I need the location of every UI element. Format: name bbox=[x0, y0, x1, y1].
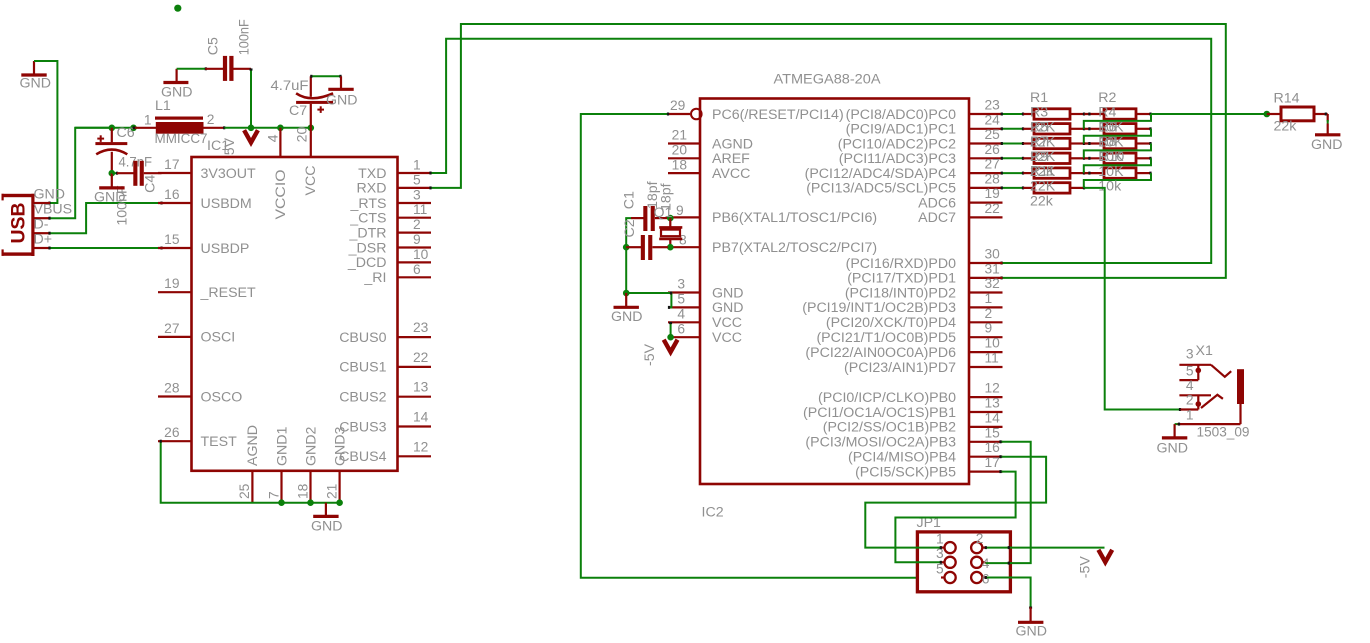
svg-text:GND2: GND2 bbox=[303, 426, 319, 466]
pin IC2-29 PC6 (inverted) bbox=[668, 98, 844, 123]
svg-text:13: 13 bbox=[413, 380, 429, 395]
svg-text:17: 17 bbox=[985, 455, 1000, 470]
svg-text:(PCI16/RXD)PD0: (PCI16/RXD)PD0 bbox=[846, 256, 956, 272]
svg-text:12: 12 bbox=[413, 439, 428, 454]
svg-text:9: 9 bbox=[676, 203, 684, 218]
resistor R3 22k bbox=[1023, 124, 1084, 134]
svg-text:14: 14 bbox=[985, 410, 1001, 425]
svg-text:PB7(XTAL2/TOSC2/PCI7): PB7(XTAL2/TOSC2/PCI7) bbox=[712, 240, 877, 256]
pin USB GND bbox=[34, 187, 66, 204]
pin IC2-27 (PCI12/ADC4/SDA)PC4 bbox=[805, 157, 1003, 182]
svg-text:24: 24 bbox=[985, 112, 1001, 127]
pin IC2-13 (PCI1/OC1A/OC1S)PB1 bbox=[803, 396, 1002, 421]
svg-text:31: 31 bbox=[985, 261, 1000, 276]
pin IC2-12 (PCI0/ICP/CLKO)PB0 bbox=[818, 381, 1002, 406]
svg-text:GND1: GND1 bbox=[274, 426, 290, 466]
svg-text:1: 1 bbox=[936, 531, 944, 546]
wire IC2 pin to R ladder row3 bbox=[1001, 142, 1023, 145]
svg-text:(PCI21/T1/OC0B)PD5: (PCI21/T1/OC0B)PD5 bbox=[816, 330, 956, 346]
svg-text:C7: C7 bbox=[289, 103, 307, 119]
pin IC1-21 GND3 bbox=[324, 426, 348, 502]
svg-text:PC6(/RESET/PCI14): PC6(/RESET/PCI14) bbox=[712, 107, 844, 123]
junction dot C6/C4/GND bbox=[109, 170, 116, 177]
label R11 value 22k bbox=[1030, 194, 1054, 210]
svg-text:D-: D- bbox=[34, 217, 49, 233]
svg-text:5: 5 bbox=[677, 292, 685, 307]
wire IC2 pin to R ladder row6 bbox=[1001, 186, 1023, 189]
pin IC1-9 _DSR bbox=[348, 232, 431, 256]
ground GND (crystal) bbox=[611, 293, 643, 325]
pin IC1-14 CBUS3 bbox=[339, 410, 431, 436]
pin USB D- bbox=[34, 217, 51, 234]
svg-text:CBUS1: CBUS1 bbox=[339, 360, 386, 376]
pin IC1-25 AGND bbox=[237, 425, 261, 503]
wire ladder output (row6 to X1) bbox=[1084, 188, 1180, 411]
svg-text:32: 32 bbox=[985, 276, 1000, 291]
svg-text:22K: 22K bbox=[1030, 179, 1056, 195]
svg-text:L1: L1 bbox=[155, 98, 171, 114]
svg-text:(PCI3/MOSI/OC2A)PB3: (PCI3/MOSI/OC2A)PB3 bbox=[805, 435, 956, 451]
pin IC1-20 VCC bbox=[295, 127, 311, 157]
wire IC2 pin to R ladder row5 bbox=[1001, 172, 1023, 175]
wire crystal GND to pins 3/5 bbox=[626, 292, 671, 309]
svg-text:10K: 10K bbox=[1098, 164, 1124, 180]
svg-text:(PCI12/ADC4/SDA)PC4: (PCI12/ADC4/SDA)PC4 bbox=[805, 166, 956, 182]
pin IC1-22 CBUS1 bbox=[339, 350, 431, 376]
wire C7 to GND bbox=[311, 75, 341, 78]
svg-text:26: 26 bbox=[164, 425, 180, 440]
svg-text:(PCI17/TXD)PD1: (PCI17/TXD)PD1 bbox=[847, 271, 956, 287]
svg-text:4: 4 bbox=[266, 134, 282, 142]
svg-text:R14: R14 bbox=[1274, 91, 1300, 107]
svg-text:GND: GND bbox=[1016, 624, 1048, 640]
svg-text:27: 27 bbox=[985, 157, 1000, 172]
svg-text:2: 2 bbox=[985, 306, 993, 321]
wire VCC pins 4-6 bbox=[669, 322, 672, 337]
pin USB D+ bbox=[34, 232, 53, 249]
svg-text:GND: GND bbox=[20, 76, 52, 92]
svg-text:7: 7 bbox=[266, 491, 281, 499]
svg-text:C6: C6 bbox=[117, 125, 135, 141]
resistor R10 10k bbox=[1084, 168, 1151, 178]
svg-text:17: 17 bbox=[164, 157, 179, 172]
resistor R1 22k bbox=[1023, 109, 1084, 119]
wire SCK net (PB5 to JP1 pin3) bbox=[895, 470, 1015, 564]
svg-text:_DSR: _DSR bbox=[348, 240, 387, 256]
wire crystal left rail bbox=[626, 218, 631, 293]
svg-text:5: 5 bbox=[1186, 364, 1194, 379]
svg-text:VCC: VCC bbox=[712, 330, 742, 346]
pin IC2-24 (PCI9/ADC1)PC1 bbox=[846, 112, 1003, 137]
svg-text:1: 1 bbox=[144, 113, 152, 128]
svg-text:_DTR: _DTR bbox=[348, 225, 386, 241]
svg-text:(PCI8/ADC0)PC0: (PCI8/ADC0)PC0 bbox=[846, 107, 956, 123]
resistor R4 10k bbox=[1084, 124, 1151, 134]
pin IC1-1 TXD bbox=[358, 158, 431, 182]
svg-text:TEST: TEST bbox=[201, 434, 238, 450]
svg-text:USBDP: USBDP bbox=[201, 241, 250, 257]
junction dot rail/pin20 bbox=[308, 125, 315, 132]
wire IC2 pin to R ladder row4 bbox=[1001, 157, 1023, 160]
wire ladder staircase row2 bbox=[1084, 129, 1151, 144]
pin IC1-11 _CTS bbox=[349, 202, 431, 226]
connector USB bbox=[2, 194, 35, 256]
svg-text:6: 6 bbox=[413, 262, 421, 277]
svg-text:18: 18 bbox=[295, 483, 310, 499]
label R7 name bbox=[1030, 134, 1048, 150]
label IC2 bbox=[702, 505, 724, 521]
svg-text:_RTS: _RTS bbox=[349, 196, 386, 212]
svg-text:10: 10 bbox=[985, 336, 1001, 351]
svg-text:29: 29 bbox=[670, 98, 686, 113]
svg-text:22k: 22k bbox=[1274, 118, 1298, 134]
wire MISO net (PB4 to JP1 pin1) bbox=[865, 455, 1046, 549]
label VCC bbox=[303, 166, 319, 196]
svg-text:(PCI23/AIN1)PD7: (PCI23/AIN1)PD7 bbox=[844, 360, 956, 376]
wire JP1 pin2 to -5V bbox=[986, 546, 1105, 549]
label R3 name bbox=[1030, 105, 1048, 121]
svg-text:GND: GND bbox=[326, 92, 358, 108]
pin IC2-4 VCC bbox=[668, 307, 742, 332]
svg-text:R8: R8 bbox=[1098, 134, 1116, 150]
pin IC2-21 AGND bbox=[668, 128, 753, 153]
junction dot rail/L1 bbox=[130, 125, 137, 132]
label R5 value 22k bbox=[1030, 149, 1056, 165]
capacitor C4 bbox=[117, 154, 162, 193]
connector X1 jack bbox=[1178, 343, 1250, 441]
supply -5V (top rail) bbox=[222, 130, 258, 160]
svg-text:20: 20 bbox=[295, 127, 311, 143]
label R10 value 10k bbox=[1098, 179, 1122, 195]
svg-text:GND: GND bbox=[34, 187, 66, 203]
svg-text:5: 5 bbox=[413, 172, 421, 187]
crystal Q1 bbox=[654, 205, 683, 247]
svg-text:4: 4 bbox=[1186, 378, 1194, 393]
svg-text:22k: 22k bbox=[1030, 194, 1054, 210]
svg-text:R6: R6 bbox=[1098, 119, 1116, 135]
svg-text:R10: R10 bbox=[1098, 149, 1124, 165]
pin IC1-26 TEST bbox=[158, 425, 237, 450]
pin IC1-2 _DTR bbox=[348, 217, 431, 241]
svg-text:ADC7: ADC7 bbox=[918, 210, 956, 226]
label R4 value 10k bbox=[1098, 134, 1124, 150]
pin IC2-15 (PCI3/MOSI/OC2A)PB3 bbox=[805, 425, 1002, 450]
svg-text:14: 14 bbox=[413, 410, 429, 425]
svg-text:(PCI2/SS/OC1B)PB2: (PCI2/SS/OC1B)PB2 bbox=[823, 420, 956, 436]
svg-text:R3: R3 bbox=[1030, 105, 1048, 121]
capacitor C7 bbox=[271, 76, 334, 128]
pin USB VBUS bbox=[34, 202, 73, 219]
pin IC2-2 (PCI20/XCK/T0)PD4 bbox=[826, 306, 1003, 331]
inductor L1 bbox=[134, 98, 230, 154]
svg-text:6: 6 bbox=[677, 321, 685, 336]
svg-text:3: 3 bbox=[1186, 347, 1194, 362]
svg-text:3V3OUT: 3V3OUT bbox=[201, 166, 257, 182]
label ATMEGA88-20A bbox=[774, 71, 882, 87]
svg-text:_CTS: _CTS bbox=[349, 211, 386, 227]
svg-text:Q1: Q1 bbox=[654, 205, 673, 221]
wire DAC out to R14 bbox=[1151, 113, 1267, 115]
label R6 name bbox=[1098, 119, 1116, 135]
pin IC2-25 (PCI10/ADC2)PC2 bbox=[838, 127, 1003, 152]
svg-text:OSCO: OSCO bbox=[201, 389, 243, 405]
wire ladder staircase row5 bbox=[1084, 173, 1151, 188]
svg-text:VCCIO: VCCIO bbox=[273, 170, 289, 220]
svg-text:R5: R5 bbox=[1030, 119, 1048, 135]
svg-text:9: 9 bbox=[413, 232, 421, 247]
capacitor C1 bbox=[621, 181, 674, 231]
svg-text:4.7uF: 4.7uF bbox=[271, 78, 309, 94]
svg-text:10k: 10k bbox=[1098, 179, 1122, 195]
junction dot bus pin7 bbox=[278, 499, 285, 506]
svg-text:26: 26 bbox=[985, 142, 1001, 157]
wire C5 to +rail bbox=[250, 69, 253, 128]
svg-text:2: 2 bbox=[1186, 393, 1194, 408]
svg-text:C2: C2 bbox=[622, 219, 638, 237]
ground GND (at X1) bbox=[1157, 424, 1189, 456]
pin IC1-18 GND2 bbox=[295, 426, 319, 502]
pin IC1-4 VCCIO bbox=[266, 128, 282, 157]
svg-text:GND: GND bbox=[712, 300, 744, 316]
wire USBDM net bbox=[50, 202, 162, 235]
pin IC1-16 USBDM bbox=[158, 187, 252, 212]
svg-text:12: 12 bbox=[985, 381, 1000, 396]
svg-text:(PCI5/SCK)PB5: (PCI5/SCK)PB5 bbox=[855, 464, 956, 480]
svg-text:20: 20 bbox=[672, 143, 688, 158]
pin IC2-14 (PCI2/SS/OC1B)PB2 bbox=[823, 410, 1003, 435]
svg-text:2: 2 bbox=[413, 217, 421, 232]
label R10 name bbox=[1098, 149, 1124, 165]
svg-text:RXD: RXD bbox=[357, 181, 387, 197]
svg-text:IC2: IC2 bbox=[702, 505, 724, 521]
svg-text:1: 1 bbox=[985, 291, 993, 306]
junction dot C2 left bbox=[623, 244, 630, 251]
wire ladder staircase row1 bbox=[1084, 114, 1151, 129]
svg-text:(PCI1/OC1A/OC1S)PB1: (PCI1/OC1A/OC1S)PB1 bbox=[803, 405, 956, 421]
svg-text:25: 25 bbox=[985, 127, 1001, 142]
svg-text:R2: R2 bbox=[1098, 90, 1116, 106]
svg-text:22: 22 bbox=[413, 350, 428, 365]
svg-text:_RI: _RI bbox=[363, 270, 386, 286]
svg-text:CBUS0: CBUS0 bbox=[339, 330, 386, 346]
wire 5V rail (right) bbox=[225, 127, 311, 129]
pin IC1-23 CBUS0 bbox=[339, 320, 431, 346]
pin IC2-17 (PCI5/SCK)PB5 bbox=[855, 455, 1002, 480]
svg-text:ADC6: ADC6 bbox=[918, 195, 956, 211]
svg-text:VBUS: VBUS bbox=[34, 202, 73, 218]
svg-text:(PCI9/ADC1)PC1: (PCI9/ADC1)PC1 bbox=[846, 122, 956, 138]
svg-text:-5V: -5V bbox=[1077, 556, 1093, 579]
svg-text:GND: GND bbox=[1157, 441, 1189, 457]
svg-text:10: 10 bbox=[413, 247, 429, 262]
wire X1 pin1 to GND bbox=[1175, 423, 1178, 425]
svg-text:USB: USB bbox=[8, 203, 30, 244]
svg-text:C1: C1 bbox=[621, 191, 637, 209]
svg-text:R4: R4 bbox=[1098, 105, 1116, 121]
pin IC1-5 RXD bbox=[357, 172, 431, 196]
svg-text:30: 30 bbox=[985, 247, 1001, 262]
supply -5V (at JP1) bbox=[1077, 550, 1112, 578]
wire TXD net (IC1 pin1 to IC2 PD0) bbox=[431, 39, 1212, 265]
ground GND (IC1 bottom) bbox=[311, 503, 343, 535]
junction dot bus pin18 bbox=[307, 499, 314, 506]
pin IC1-10 _DCD bbox=[347, 247, 431, 271]
svg-text:(PCI19/INT1/OC2B)PD3: (PCI19/INT1/OC2B)PD3 bbox=[802, 300, 956, 316]
wire ladder staircase row4 bbox=[1084, 158, 1151, 173]
ic IC2 ATMEGA88 body bbox=[700, 99, 969, 485]
pin IC1-12 CBUS4 bbox=[339, 439, 431, 465]
junction dot bus pin21 bbox=[336, 499, 343, 506]
svg-text:1503_09: 1503_09 bbox=[1197, 425, 1250, 441]
pin IC2-20 AREF bbox=[668, 143, 750, 168]
junction dot rail/pin4 bbox=[277, 125, 284, 132]
resistor R5 22k bbox=[1023, 138, 1084, 148]
ic IC1 FT232RL body bbox=[192, 157, 398, 471]
svg-text:4: 4 bbox=[677, 307, 685, 322]
pin IC1-15 USBDP bbox=[158, 232, 249, 257]
svg-text:PB6(XTAL1/TOSC1/PCI6): PB6(XTAL1/TOSC1/PCI6) bbox=[712, 210, 877, 226]
pin IC1-27 OSCI bbox=[158, 321, 235, 346]
svg-text:22: 22 bbox=[985, 201, 1000, 216]
svg-text:X1: X1 bbox=[1196, 343, 1213, 359]
pin IC2-5 GND bbox=[668, 292, 744, 317]
svg-text:(PCI11/ADC3)PC3: (PCI11/ADC3)PC3 bbox=[839, 151, 956, 167]
pin IC1-6 _RI bbox=[363, 262, 431, 286]
ground GND (top-left) bbox=[20, 61, 52, 92]
junction dot crystal GND bbox=[623, 290, 630, 297]
wire USB-GND net bbox=[34, 61, 57, 205]
wire IC2 pin to R ladder row2 bbox=[1001, 127, 1023, 130]
svg-text:GND: GND bbox=[1311, 137, 1343, 153]
wire USBDP net bbox=[50, 247, 162, 250]
svg-text:2: 2 bbox=[976, 531, 984, 546]
svg-text:25: 25 bbox=[237, 483, 252, 499]
svg-text:MMICC7: MMICC7 bbox=[155, 131, 208, 147]
svg-text:AVCC: AVCC bbox=[712, 166, 750, 182]
pin IC2-3 GND bbox=[668, 277, 744, 302]
svg-text:18: 18 bbox=[672, 157, 688, 172]
svg-text:28: 28 bbox=[164, 381, 180, 396]
svg-text:ATMEGA88-20A: ATMEGA88-20A bbox=[774, 71, 882, 87]
connector JP1 bbox=[917, 515, 1011, 592]
resistor R2 10k bbox=[1084, 109, 1151, 119]
label R9 value 22k bbox=[1030, 179, 1056, 195]
svg-text:100nF: 100nF bbox=[237, 19, 253, 55]
resistor R14 22k bbox=[1267, 91, 1328, 135]
svg-text:R1: R1 bbox=[1030, 90, 1048, 106]
pin IC1-7 GND1 bbox=[266, 426, 290, 502]
svg-text:1: 1 bbox=[1186, 408, 1194, 423]
svg-text:23: 23 bbox=[985, 98, 1001, 113]
label R9 name bbox=[1030, 149, 1048, 165]
label R7 value 22k bbox=[1030, 164, 1056, 180]
svg-text:27: 27 bbox=[164, 321, 179, 336]
wire TEST/GND bus bbox=[161, 440, 340, 503]
wire VBUS net bbox=[50, 128, 113, 220]
svg-text:(PCI4/MISO)PB4: (PCI4/MISO)PB4 bbox=[848, 450, 956, 466]
pin IC1-3 _RTS bbox=[349, 188, 431, 212]
svg-text:GND: GND bbox=[611, 309, 643, 325]
svg-text:VCC: VCC bbox=[303, 166, 319, 196]
wire ladder staircase row3 bbox=[1084, 144, 1151, 159]
ground GND (at JP1) bbox=[1016, 607, 1048, 639]
wire JP1 pin6 to GND bbox=[986, 576, 1033, 608]
pin IC2-8 PB7 bbox=[668, 233, 877, 257]
svg-text:9: 9 bbox=[985, 321, 993, 336]
label R6 value 10k bbox=[1098, 149, 1124, 165]
wire RESET net (pin29 to JP1 pin5) bbox=[581, 113, 941, 580]
pin IC1-17 3V3OUT bbox=[158, 157, 256, 182]
wire 5V rail bbox=[75, 127, 133, 129]
svg-text:1: 1 bbox=[413, 158, 421, 173]
resistor R6 10k bbox=[1084, 138, 1151, 148]
svg-text:GND: GND bbox=[311, 519, 343, 535]
junction dot crystal bottom bbox=[667, 244, 674, 251]
svg-text:(PCI20/XCK/T0)PD4: (PCI20/XCK/T0)PD4 bbox=[826, 315, 956, 331]
label R2 name bbox=[1098, 90, 1116, 106]
svg-text:GND: GND bbox=[94, 190, 126, 206]
pin IC2-9 (PCI21/T1/OC0B)PD5 bbox=[816, 321, 1002, 346]
svg-text:16: 16 bbox=[985, 440, 1001, 455]
pin IC2-10 (PCI22/AIN0OC0A)PD6 bbox=[805, 336, 1002, 361]
capacitor C5 bbox=[205, 19, 252, 81]
capacitor C2 bbox=[622, 219, 668, 260]
svg-text:AREF: AREF bbox=[712, 151, 750, 167]
pin IC2-32 (PCI18/INT0)PD2 bbox=[845, 276, 1003, 301]
pin IC2-26 (PCI11/ADC3)PC3 bbox=[839, 142, 1003, 167]
svg-text:CBUS2: CBUS2 bbox=[339, 390, 386, 406]
svg-text:GND: GND bbox=[712, 285, 744, 301]
supply -5V (IC2 VCC) bbox=[642, 340, 678, 366]
svg-text:_DCD: _DCD bbox=[347, 255, 387, 271]
svg-text:21: 21 bbox=[672, 128, 687, 143]
pin IC2-9 PB6 bbox=[668, 203, 877, 226]
junction dot rail/C5drop bbox=[248, 125, 255, 132]
svg-text:C5: C5 bbox=[205, 37, 221, 55]
pin IC2-19 ADC6 bbox=[918, 186, 1002, 211]
svg-text:28: 28 bbox=[985, 171, 1001, 186]
svg-text:USBDM: USBDM bbox=[201, 196, 252, 212]
label R2 value 10k bbox=[1098, 120, 1124, 136]
svg-text:-5V: -5V bbox=[642, 343, 658, 366]
svg-text:13: 13 bbox=[985, 396, 1001, 411]
svg-text:AGND: AGND bbox=[712, 136, 753, 152]
ground GND (at C5) bbox=[161, 69, 193, 101]
junction dot at R14 bbox=[1264, 111, 1271, 118]
svg-text:2: 2 bbox=[207, 112, 215, 127]
ground GND (at C7) bbox=[326, 76, 358, 108]
resistor R8 10k bbox=[1084, 153, 1151, 163]
pin IC2-11 (PCI23/AIN1)PD7 bbox=[844, 351, 1002, 376]
label R4 name bbox=[1098, 105, 1116, 121]
pin IC2-18 AVCC bbox=[668, 157, 750, 182]
ground GND (at C6/C4) bbox=[94, 173, 126, 206]
svg-text:19: 19 bbox=[164, 276, 180, 291]
svg-text:11: 11 bbox=[413, 202, 427, 217]
capacitor C6 bbox=[95, 125, 134, 226]
resistor R7 22k bbox=[1023, 153, 1084, 163]
svg-text:3: 3 bbox=[677, 277, 685, 292]
pin IC2-28 (PCI13/ADC5/SCL)PC5 bbox=[806, 171, 1002, 196]
svg-text:R9: R9 bbox=[1030, 149, 1048, 165]
pin IC1-28 OSCO bbox=[158, 381, 242, 406]
svg-text:21: 21 bbox=[324, 484, 339, 499]
junction dot crystal top bbox=[667, 215, 674, 222]
svg-text:23: 23 bbox=[413, 320, 429, 335]
label R8 name bbox=[1098, 134, 1116, 150]
svg-text:16: 16 bbox=[164, 187, 180, 202]
resistor R11 22k bbox=[1023, 183, 1084, 193]
